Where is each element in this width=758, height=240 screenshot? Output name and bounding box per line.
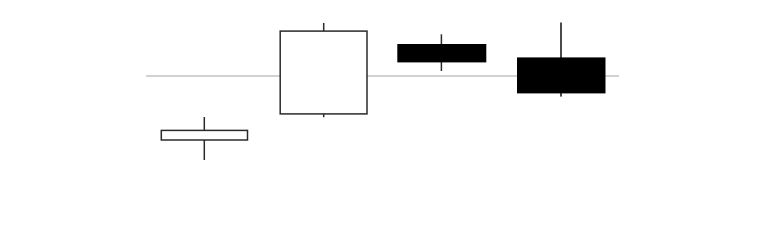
candle 3 body (filled black) — [397, 44, 486, 62]
baseline (horizontal gray price line) — [146, 75, 619, 77]
candle 3 wick — [440, 34, 442, 71]
candle 1 wick — [203, 117, 205, 160]
candle 2 lower wick — [323, 113, 325, 117]
candle 4 body (filled black) — [517, 57, 606, 93]
candle 1 body (hollow/white) — [161, 130, 247, 140]
candle 2 body (hollow/white) — [280, 31, 367, 114]
candle 4 wick — [560, 23, 562, 97]
candle 2 upper wick — [323, 23, 325, 32]
